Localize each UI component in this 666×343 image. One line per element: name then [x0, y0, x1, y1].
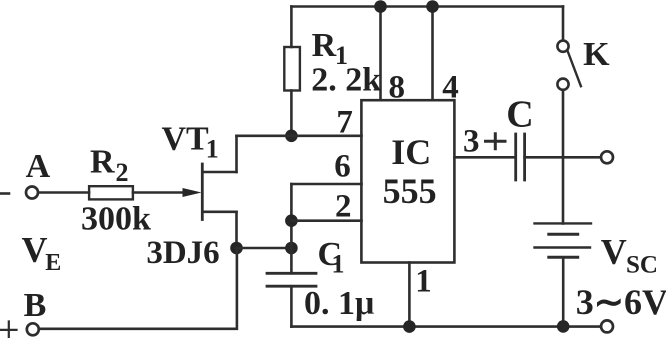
node terminal B [27, 323, 39, 335]
wire drain vertical [235, 136, 238, 172]
svg-text:1: 1 [206, 135, 219, 164]
wire top rail down to R1 [290, 7, 293, 48]
capacitor C1 [267, 273, 316, 286]
node bottom-right terminal [601, 320, 613, 332]
svg-text:E: E [45, 250, 61, 276]
svg-text:V: V [601, 231, 627, 271]
wire switch to battery [562, 90, 565, 223]
resistor R2 [89, 186, 133, 199]
wire pin6 down through pin2 node to C1 [290, 184, 293, 273]
wire pin 2 [291, 219, 361, 222]
svg-text:R: R [90, 144, 115, 181]
wire battery to bottom rail [562, 257, 565, 326]
wire C1 bottom lead [290, 286, 293, 326]
wire pin 6 [291, 183, 361, 186]
svg-text:3DJ6: 3DJ6 [146, 235, 219, 271]
capacitor C [516, 134, 525, 180]
svg-text:7: 7 [336, 105, 353, 141]
wire pin 4 [431, 7, 434, 101]
node junction pin1 bottom [403, 320, 416, 333]
svg-text:555: 555 [383, 171, 437, 211]
wire drain lead [202, 171, 236, 174]
resistor R1 [284, 47, 300, 91]
svg-text:IC: IC [391, 132, 431, 172]
node output terminal [601, 151, 613, 163]
polarity plus of capacitor C [484, 132, 507, 150]
svg-text:K: K [583, 36, 610, 73]
node junction battery bottom [557, 320, 570, 333]
svg-text:SC: SC [626, 252, 658, 279]
svg-text:V: V [22, 230, 48, 270]
wire R1 bottom to pin7 node [290, 91, 293, 136]
wire R2 to gate with arrow [133, 191, 185, 194]
IC U1 555 timer box [361, 100, 454, 262]
switch K blade [568, 52, 581, 87]
node junction pin4 top [426, 0, 439, 13]
svg-text:4: 4 [442, 70, 459, 106]
gate arrowhead [183, 188, 202, 197]
svg-text:2: 2 [116, 158, 129, 187]
wire pin 1 [408, 263, 411, 327]
wire bottom rail [291, 325, 601, 328]
node junction pin8 top [374, 0, 387, 13]
svg-text:8: 8 [389, 70, 406, 106]
wire pin 8 [379, 7, 382, 101]
svg-text:C: C [506, 94, 533, 136]
svg-text:B: B [24, 287, 47, 324]
minus polarity mark [0, 192, 9, 195]
switch K top contact [557, 41, 568, 52]
svg-text:1: 1 [332, 249, 345, 278]
node junction R1/pin7 [285, 130, 298, 143]
node junction C1 top [285, 242, 298, 255]
svg-text:2. 2k: 2. 2k [311, 61, 381, 98]
wire pin 3 [455, 156, 516, 159]
wire C to output terminal [525, 156, 600, 159]
switch K bottom contact [557, 79, 568, 90]
plus polarity mark [1, 322, 17, 338]
wire source node to C1 node [237, 247, 292, 250]
wire top rail to switch [562, 7, 565, 41]
svg-text:A: A [26, 148, 51, 185]
svg-text:3: 3 [463, 124, 480, 160]
battery V_SC plates [535, 222, 592, 224]
wire pin 7 [237, 135, 362, 138]
wire B to source node [39, 248, 237, 329]
svg-text:300k: 300k [81, 201, 151, 238]
svg-text:R: R [312, 27, 337, 64]
svg-text:3∼6V: 3∼6V [576, 282, 666, 322]
node terminal A [26, 187, 38, 199]
wire A to R2 [39, 191, 90, 194]
wire source down to node [235, 212, 238, 248]
svg-text:6: 6 [334, 148, 351, 184]
transistor VT1 channel [201, 164, 204, 220]
svg-text:VT: VT [162, 121, 210, 158]
node junction pin2 [285, 214, 298, 227]
node junction source/B [230, 242, 243, 255]
wire top supply rail [291, 5, 563, 8]
svg-text:2: 2 [335, 188, 352, 224]
svg-text:1: 1 [415, 264, 432, 300]
svg-text:0. 1μ: 0. 1μ [304, 285, 374, 322]
wire source lead [202, 211, 236, 214]
